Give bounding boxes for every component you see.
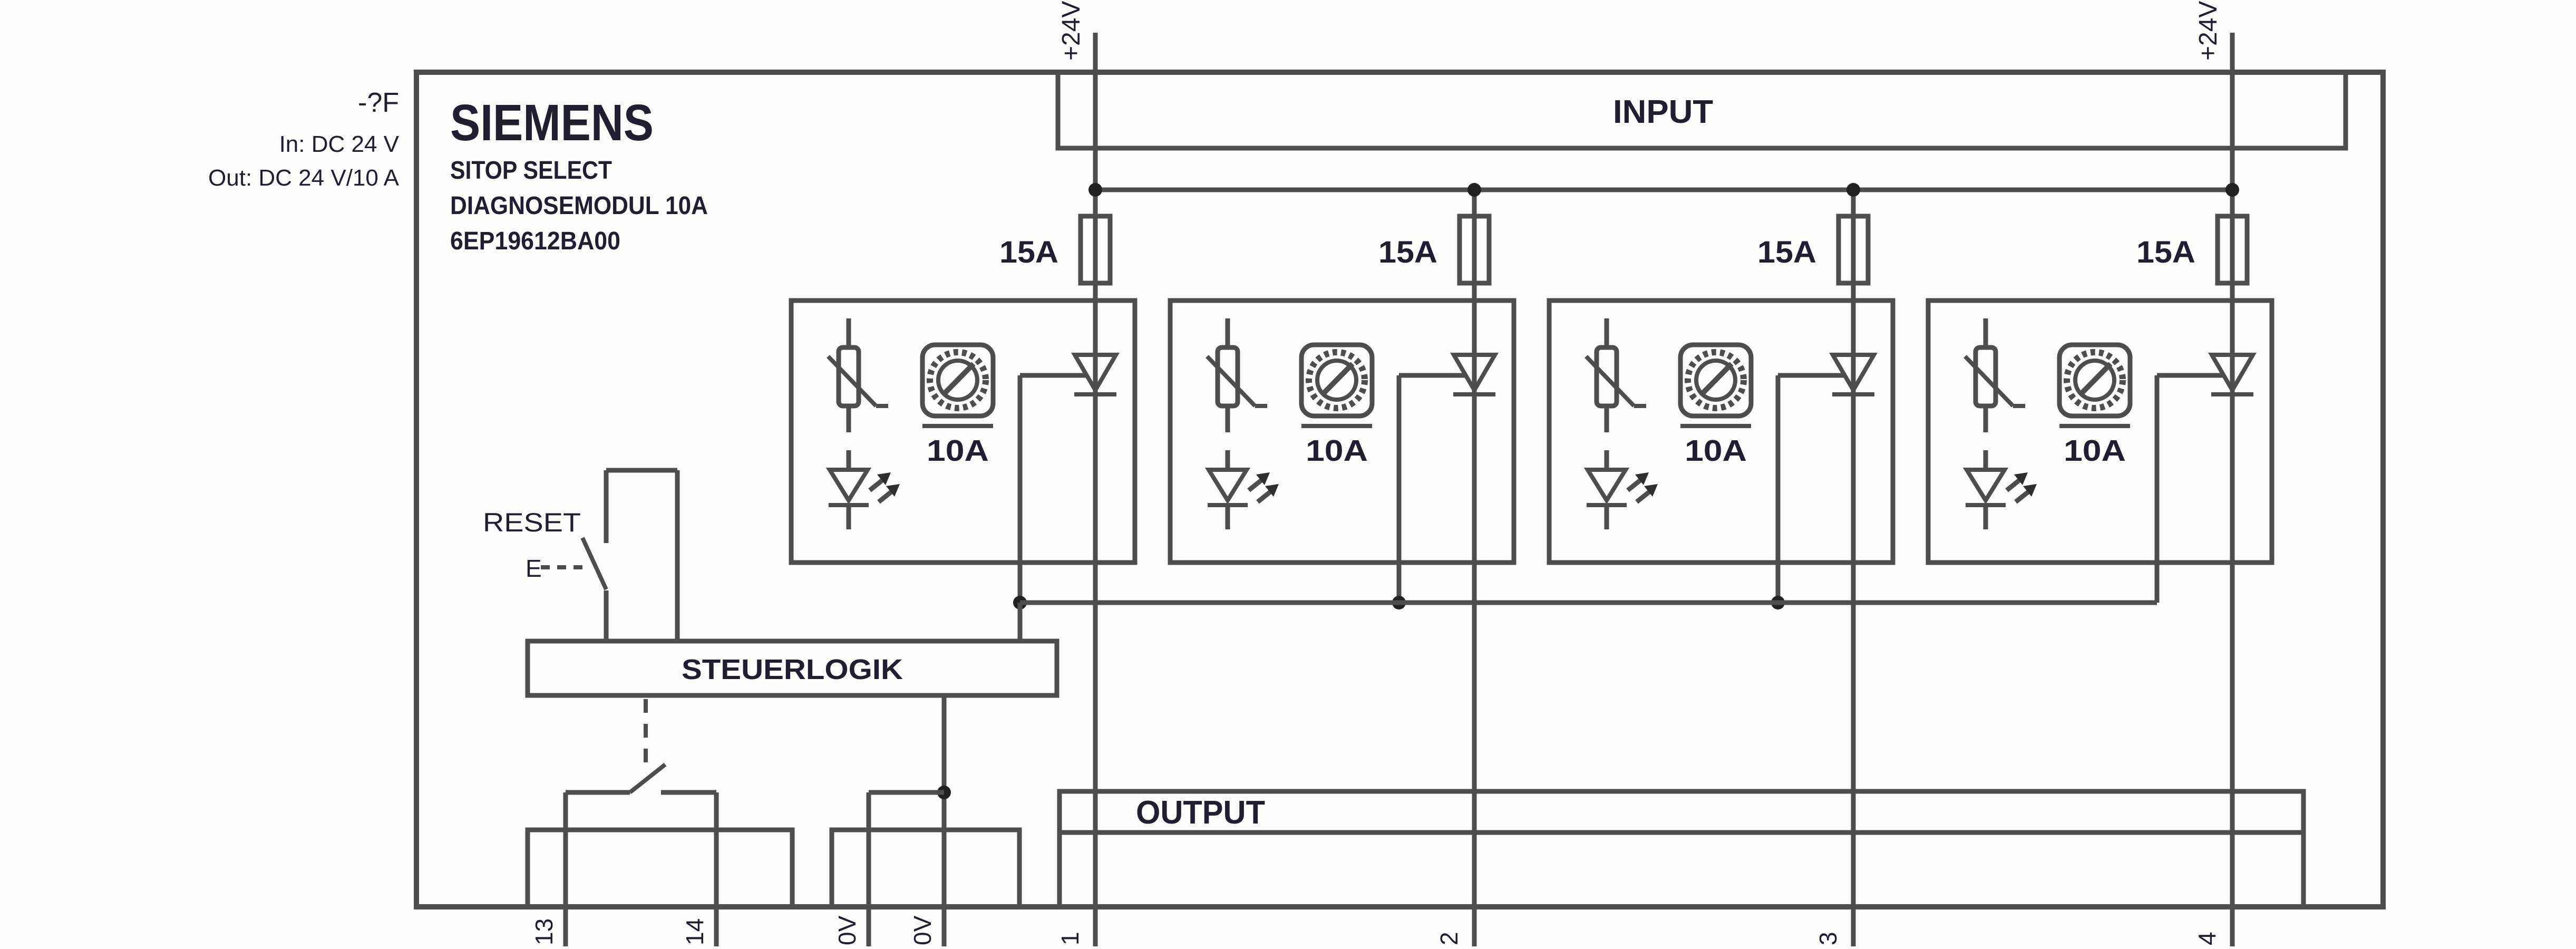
varistor RV4 body xyxy=(1976,347,1996,406)
selector S1 knurled ring xyxy=(930,352,986,408)
contact K1 lever xyxy=(630,764,665,792)
wire control tap channel 3 riser xyxy=(1776,375,1781,603)
node input bus junction channel 3 xyxy=(1846,183,1860,197)
svg-text:13: 13 xyxy=(530,918,558,945)
node input bus junction channel 1 xyxy=(1088,183,1102,197)
selector S4 slot xyxy=(2081,364,2111,394)
wire control tap channel 2 riser xyxy=(1397,375,1402,603)
wire control tap channel 3 horizontal xyxy=(1778,373,1844,378)
wire channel 1 vertical +24V feed to output terminal 1 xyxy=(1093,33,1098,946)
LED D3a lead top xyxy=(1605,450,1609,470)
selector S2 slot xyxy=(1323,364,1353,394)
svg-text:+24V: +24V xyxy=(1057,1,1085,61)
INPUT terminal box xyxy=(1058,72,2346,148)
svg-text:1: 1 xyxy=(1056,932,1084,945)
LED D2a arrow 2 xyxy=(1258,484,1279,502)
channel 1 function block xyxy=(791,301,1135,563)
LED D4a lead bottom xyxy=(1984,505,1988,529)
selector S3 housing xyxy=(1680,345,1751,416)
fuse F2 15A xyxy=(1460,216,1489,283)
svg-text:3: 3 xyxy=(1814,932,1842,945)
selector S2 dial xyxy=(1317,361,1356,400)
wire channel 3 vertical +24V feed to output terminal 3 xyxy=(1851,190,1856,946)
OUTPUT box divider xyxy=(1059,830,2303,835)
selector S1 underline xyxy=(922,424,993,428)
selector S1 slot xyxy=(944,364,974,394)
fuse F3 15A xyxy=(1839,216,1868,283)
varistor RV3 lead top xyxy=(1605,318,1609,347)
wire channel 2 vertical +24V feed to output terminal 2 xyxy=(1472,190,1477,946)
wire terminal 13 xyxy=(563,792,568,946)
OUTPUT terminal box xyxy=(1059,791,2303,907)
diode D2 triangle xyxy=(1454,355,1495,390)
selector S2 underline xyxy=(1301,424,1372,428)
wire control tap channel 1 horizontal xyxy=(1020,373,1086,378)
selector S4 dial xyxy=(2075,361,2114,400)
LED D2a cathode bar xyxy=(1208,503,1248,507)
reset button body left edge upper xyxy=(604,470,609,543)
node control bus junction channel 3 xyxy=(1771,596,1785,609)
varistor RV4 lead top xyxy=(1984,318,1988,347)
fuse F4 15A xyxy=(2218,216,2247,283)
selector S4 housing xyxy=(2059,345,2130,416)
selector S1 housing xyxy=(922,345,993,416)
svg-text:SITOP SELECT: SITOP SELECT xyxy=(450,157,612,185)
wire control bus drop to steuerlogik xyxy=(1018,603,1023,641)
selector S2 knurled ring xyxy=(1309,352,1365,408)
svg-text:15A: 15A xyxy=(999,235,1058,269)
svg-text:0V: 0V xyxy=(909,915,936,945)
selector S3 slot xyxy=(1702,364,1732,394)
node input bus junction channel 4 xyxy=(2225,183,2239,197)
svg-text:In: DC 24 V: In: DC 24 V xyxy=(279,131,400,157)
selector S3 underline xyxy=(1680,424,1751,428)
wire terminal 14 xyxy=(714,792,719,946)
svg-text:10A: 10A xyxy=(2064,434,2126,468)
wire 0V main from steuerlogik xyxy=(942,695,947,946)
device outline SITOP module xyxy=(416,72,2383,907)
LED D2a arrow 1 xyxy=(1249,472,1270,490)
svg-text:SIEMENS: SIEMENS xyxy=(450,94,654,151)
channel 2 function block xyxy=(1170,301,1514,563)
input bus +24V xyxy=(1095,188,2232,192)
varistor RV4 diagonal xyxy=(1965,356,2013,406)
svg-text:-?F: -?F xyxy=(358,88,399,118)
wire steuerlogik to contact dashed xyxy=(644,699,648,771)
node 0V junction xyxy=(937,786,951,799)
terminal box 0V xyxy=(832,830,1019,907)
LED D4a arrow 1 xyxy=(2007,472,2028,490)
svg-text:6EP19612BA00: 6EP19612BA00 xyxy=(450,227,620,255)
wire channel 4 vertical +24V feed to output terminal 4 xyxy=(2230,33,2235,946)
selector S4 underline xyxy=(2059,424,2130,428)
wire contact fixed right xyxy=(661,790,716,795)
LED D2a lead bottom xyxy=(1226,505,1230,529)
LED D4a lead top xyxy=(1984,450,1988,470)
wire contact fixed left xyxy=(566,790,630,795)
varistor RV4 lead bottom xyxy=(1984,406,1988,432)
varistor RV2 lead bottom xyxy=(1226,406,1230,432)
varistor RV2 body xyxy=(1218,347,1238,406)
varistor RV1 body xyxy=(839,347,859,406)
varistor RV3 lead bottom xyxy=(1605,406,1609,432)
svg-text:0V: 0V xyxy=(833,915,861,945)
varistor RV1 foot xyxy=(876,404,888,408)
svg-text:E: E xyxy=(526,555,542,582)
varistor RV4 foot xyxy=(2013,404,2025,408)
reset button body top edge xyxy=(606,468,677,473)
fuse F1 15A xyxy=(1081,216,1110,283)
svg-text:10A: 10A xyxy=(1306,434,1368,468)
svg-text:15A: 15A xyxy=(1757,235,1816,269)
LED D1a triangle xyxy=(830,470,868,500)
varistor RV3 body xyxy=(1597,347,1617,406)
varistor RV1 lead top xyxy=(847,318,851,347)
diode D3 triangle xyxy=(1833,355,1874,390)
control bus to steuerlogik xyxy=(1020,601,2157,605)
svg-text:4: 4 xyxy=(2193,932,2221,945)
reset button body left edge lower xyxy=(604,590,609,641)
svg-text:STEUERLOGIK: STEUERLOGIK xyxy=(682,654,903,685)
terminal box 13 14 xyxy=(528,830,792,907)
svg-text:2: 2 xyxy=(1435,932,1463,945)
LED D4a cathode bar xyxy=(1966,503,2006,507)
selector S4 knurled ring xyxy=(2067,352,2123,408)
LED D2a triangle xyxy=(1209,470,1247,500)
svg-text:Out: DC 24 V/10 A: Out: DC 24 V/10 A xyxy=(208,165,400,191)
varistor RV1 lead bottom xyxy=(847,406,851,432)
wire control tap channel 2 horizontal xyxy=(1399,373,1465,378)
channel 4 function block xyxy=(1928,301,2272,563)
varistor RV1 diagonal xyxy=(828,356,876,406)
node control bus junction channel 2 xyxy=(1392,596,1406,609)
actuator link E dashed xyxy=(541,565,582,569)
wire 0V branch xyxy=(867,792,871,946)
diode D3 cathode bar xyxy=(1832,392,1874,396)
wire control tap channel 4 riser xyxy=(2155,375,2160,603)
svg-text:10A: 10A xyxy=(1685,434,1747,468)
node control bus junction channel 1 xyxy=(1013,596,1027,609)
selector S1 dial xyxy=(938,361,977,400)
LED D3a triangle xyxy=(1588,470,1626,500)
LED D1a lead top xyxy=(847,450,851,470)
LED D1a cathode bar xyxy=(829,503,869,507)
svg-text:15A: 15A xyxy=(2136,235,2195,269)
svg-text:10A: 10A xyxy=(927,434,989,468)
svg-text:INPUT: INPUT xyxy=(1613,94,1713,130)
svg-text:DIAGNOSEMODUL 10A: DIAGNOSEMODUL 10A xyxy=(450,192,708,220)
reset contact lever xyxy=(582,538,606,589)
selector S3 knurled ring xyxy=(1688,352,1744,408)
LED D1a lead bottom xyxy=(847,505,851,529)
LED D1a arrow 2 xyxy=(879,484,900,502)
varistor RV2 lead top xyxy=(1226,318,1230,347)
STEUERLOGIK block xyxy=(528,641,1057,695)
diode D1 triangle xyxy=(1075,355,1116,390)
svg-text:15A: 15A xyxy=(1378,235,1437,269)
reset button body right edge xyxy=(675,470,680,641)
LED D1a arrow 1 xyxy=(870,472,891,490)
wire 0V branch link xyxy=(869,790,944,795)
selector S2 housing xyxy=(1301,345,1372,416)
channel 3 function block xyxy=(1549,301,1893,563)
LED D3a arrow 1 xyxy=(1628,472,1649,490)
diode D1 cathode bar xyxy=(1074,392,1116,396)
svg-text:14: 14 xyxy=(681,918,708,945)
LED D2a lead top xyxy=(1226,450,1230,470)
diode D4 triangle xyxy=(2212,355,2253,390)
diode D4 cathode bar xyxy=(2211,392,2253,396)
LED D4a arrow 2 xyxy=(2016,484,2037,502)
diode D2 cathode bar xyxy=(1453,392,1495,396)
LED D3a cathode bar xyxy=(1587,503,1627,507)
LED D4a triangle xyxy=(1967,470,2005,500)
varistor RV2 foot xyxy=(1255,404,1267,408)
node input bus junction channel 2 xyxy=(1467,183,1481,197)
LED D3a arrow 2 xyxy=(1637,484,1658,502)
varistor RV3 diagonal xyxy=(1586,356,1634,406)
varistor RV2 diagonal xyxy=(1207,356,1255,406)
wire control tap channel 1 riser xyxy=(1018,375,1023,603)
varistor RV3 foot xyxy=(1634,404,1646,408)
wire control tap channel 4 horizontal xyxy=(2157,373,2223,378)
LED D3a lead bottom xyxy=(1605,505,1609,529)
svg-text:+24V: +24V xyxy=(2194,1,2222,61)
svg-text:OUTPUT: OUTPUT xyxy=(1136,795,1265,831)
selector S3 dial xyxy=(1696,361,1735,400)
svg-text:RESET: RESET xyxy=(483,508,581,537)
